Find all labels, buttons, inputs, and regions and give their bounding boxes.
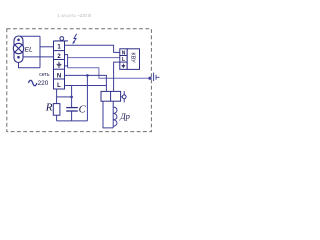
choke Dr coil bbox=[112, 101, 114, 128]
output connector node bbox=[148, 77, 151, 80]
wire vertical bus bbox=[39, 36, 41, 67]
svg-text:EL: EL bbox=[25, 47, 34, 54]
svg-text:Др: Др bbox=[119, 111, 130, 121]
PE wire to output connector bbox=[68, 68, 150, 79]
wire terminal1 to block N bbox=[65, 45, 120, 52]
terminal block XT2 bbox=[120, 49, 127, 70]
resistor R bbox=[56, 89, 58, 104]
block earth pin symbol bbox=[122, 64, 126, 68]
connector plug marks bbox=[155, 75, 157, 80]
starter stub and contact circle bbox=[121, 96, 123, 98]
lamp pin bottom bbox=[17, 56, 20, 59]
svg-text:сеть: сеть bbox=[39, 72, 50, 78]
junction node bbox=[86, 74, 89, 77]
earth tap of jumper bbox=[65, 65, 68, 67]
dashed enclosure border bbox=[7, 29, 152, 132]
manual actuation lightning arrow bbox=[73, 34, 76, 43]
ballast unit box bbox=[127, 49, 139, 70]
wire lamp pin to terminal 2 bbox=[23, 56, 54, 58]
wire lamp top to bus bbox=[20, 35, 40, 37]
riser wire bbox=[86, 75, 88, 121]
tilde symbol bbox=[29, 80, 37, 85]
svg-text:C: C bbox=[79, 105, 87, 116]
RC bottom rail bbox=[57, 120, 88, 122]
wire lamp bottom bbox=[19, 62, 41, 67]
wire starter left down around bbox=[103, 101, 113, 128]
svg-text:220: 220 bbox=[38, 80, 49, 87]
connector socket bar bbox=[153, 73, 155, 81]
wire terminal N to starter bbox=[65, 75, 107, 91]
svg-text:R: R bbox=[45, 102, 53, 114]
wire block earth down bbox=[114, 62, 120, 91]
capacitor C bbox=[71, 86, 73, 108]
svg-text:L: L bbox=[57, 83, 61, 89]
starter box bbox=[101, 91, 121, 101]
wire terminal L to starter branch bbox=[65, 85, 107, 87]
RC top rail bbox=[57, 96, 72, 98]
earth pin symbol bbox=[57, 62, 62, 67]
terminal strip XT1 bbox=[54, 41, 65, 89]
svg-text:L: L bbox=[122, 57, 125, 63]
lamp pin top bbox=[17, 39, 20, 42]
jumper terminal2 to earth bbox=[65, 55, 68, 68]
wire bus to terminal 1 bbox=[40, 46, 54, 48]
wire jumper to block L bbox=[68, 57, 120, 59]
svg-text:1 эл.сеть ~220 В: 1 эл.сеть ~220 В bbox=[58, 13, 92, 18]
junction node rail bbox=[70, 96, 73, 99]
svg-text:КВУ: КВУ bbox=[130, 52, 136, 63]
svg-text:N: N bbox=[122, 50, 126, 56]
lamp EL capsule bbox=[14, 36, 23, 63]
switch contact above strip bbox=[55, 40, 68, 42]
svg-text:N: N bbox=[57, 73, 61, 79]
lamp EL circle with X bbox=[13, 43, 23, 53]
